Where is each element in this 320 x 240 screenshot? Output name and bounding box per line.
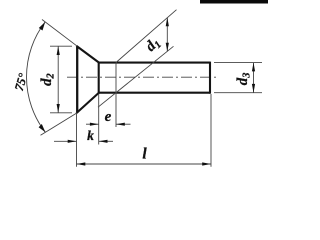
75 deg arc [27, 22, 46, 132]
svg-text:e: e [105, 109, 112, 125]
k dimension line left stub [54, 140, 77, 142]
d2 top extension tick [50, 45, 72, 47]
e left extension line (junction continued) [98, 94, 100, 127]
d2 arrow down [57, 104, 60, 113]
d1 oblique extension line upper [116, 10, 177, 63]
e right extension line through shank [115, 63, 117, 128]
shank top edge [99, 62, 210, 64]
d1 arrow up [166, 18, 169, 27]
d2 bottom extension tick [50, 112, 72, 114]
l arrow left [77, 162, 86, 165]
d2 dimension line [57, 46, 59, 113]
shank bottom edge [99, 92, 210, 94]
k right extension line (junction continued) [98, 127, 100, 145]
l right extension line [210, 94, 212, 167]
svg-text:l: l [142, 146, 147, 163]
e dimension line left stub [86, 123, 99, 125]
d3 top extension line [214, 62, 262, 64]
75 deg bottom extension line [41, 113, 78, 136]
d1 dimension line [166, 18, 168, 52]
d3 arrow up [252, 63, 255, 72]
k arrow right [68, 140, 77, 143]
e arrow left [116, 123, 125, 126]
d3 dimension line [253, 63, 255, 93]
shank right edge [209, 62, 211, 94]
head top slant [76, 46, 99, 63]
d3 arrow down [252, 84, 255, 93]
75 deg arc arrow top [39, 22, 45, 31]
black bar top right [200, 0, 268, 4]
d1 arrow down [166, 43, 169, 52]
k dimension line right stub [99, 140, 113, 142]
rivet head face [76, 46, 78, 113]
l arrow right [202, 162, 211, 165]
75 deg top extension line [42, 20, 77, 47]
svg-text:k: k [87, 128, 94, 143]
l dimension line [77, 163, 212, 165]
d3 bottom extension line [214, 92, 262, 94]
k left extension line [76, 113, 78, 167]
centerline [67, 76, 219, 78]
head-shank junction [98, 62, 100, 94]
d2 arrow up [57, 46, 60, 55]
e dimension line right stub [116, 123, 131, 125]
head bottom slant [76, 93, 99, 114]
e arrow right [90, 123, 99, 126]
k arrow left [99, 140, 108, 143]
d1 oblique extension line lower [98, 46, 174, 107]
75 deg arc arrow bottom [39, 124, 46, 132]
